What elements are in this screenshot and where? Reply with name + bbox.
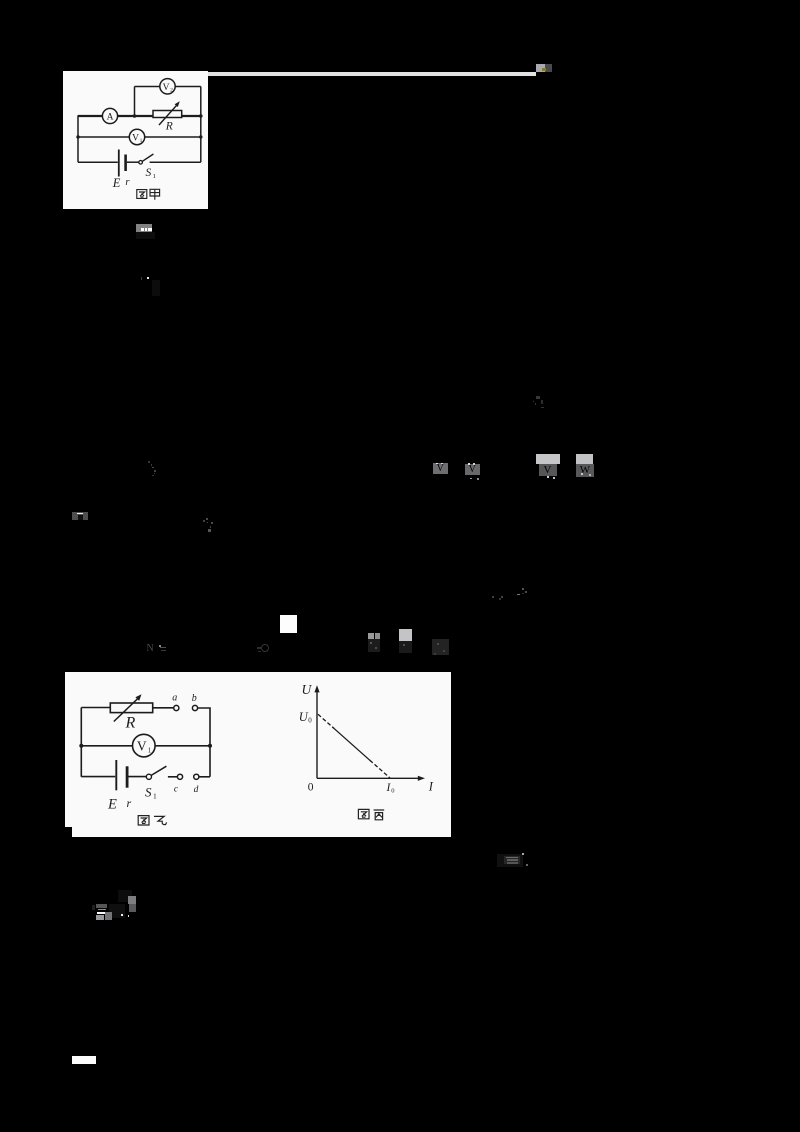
wire: left vertical xyxy=(80,708,82,777)
axis arrowheads xyxy=(314,685,425,781)
label I0 xyxy=(386,782,395,795)
text remnant m9 xyxy=(206,518,208,520)
text remnant m5 xyxy=(148,461,150,463)
svg-text:1: 1 xyxy=(153,792,157,801)
U0 dashed load line xyxy=(318,714,334,728)
ammeter A xyxy=(102,108,117,123)
wire: top branch horizontal xyxy=(135,86,201,88)
text remnant m1 xyxy=(536,64,545,72)
wire: bottom mid segment xyxy=(127,161,139,163)
svg-text:E: E xyxy=(112,176,121,190)
figure panel 乙/丙 (white box) xyxy=(65,672,451,837)
svg-text:2: 2 xyxy=(170,88,173,94)
battery E r xyxy=(119,150,126,177)
wire: top left segment xyxy=(81,707,110,709)
voltmeter V1 xyxy=(129,129,144,144)
figure panel 甲 (white box) xyxy=(63,71,208,209)
svg-text:S: S xyxy=(145,784,152,799)
node junction dots xyxy=(76,114,202,139)
svg-text:R: R xyxy=(125,715,136,732)
wire: main horizontal left segment xyxy=(78,115,102,117)
node junction dots xyxy=(79,744,212,748)
text remnant m13 xyxy=(257,647,261,649)
svg-text:V: V xyxy=(137,739,147,754)
svg-text:V: V xyxy=(163,83,170,93)
text remnant m7 xyxy=(536,454,561,464)
circuit 甲 schematic xyxy=(62,70,208,209)
svg-text:c: c xyxy=(174,784,179,794)
text remnant m12 xyxy=(147,644,157,654)
wire: left vertical xyxy=(77,115,79,162)
wire: right vertical xyxy=(200,87,202,163)
text remnant m17 (white bar) xyxy=(72,1056,96,1064)
wire: V1 branch horizontal xyxy=(78,136,201,138)
wire: main horizontal mid segment xyxy=(118,115,201,117)
svg-text:1: 1 xyxy=(153,173,156,180)
svg-text:0: 0 xyxy=(308,717,312,725)
rheostat R box xyxy=(153,101,182,125)
voltmeter V2 xyxy=(160,79,175,94)
svg-text:r: r xyxy=(125,177,130,188)
text remnant m3 xyxy=(141,277,143,280)
svg-text:A: A xyxy=(107,113,114,123)
svg-text:V: V xyxy=(132,134,139,144)
label S1 xyxy=(146,167,156,180)
wire: middle branch xyxy=(81,745,210,747)
text remnant m14 xyxy=(368,633,374,639)
black notch at panel corner xyxy=(64,827,72,838)
text remnant m8 xyxy=(72,512,88,520)
svg-text:R: R xyxy=(165,121,173,133)
svg-text:I: I xyxy=(428,780,434,794)
voltmeter V1 xyxy=(133,734,156,757)
white strip right of panel 甲 top xyxy=(208,72,536,76)
circuit 乙 and graph 丙 xyxy=(65,672,451,837)
graph 丙: U axis xyxy=(317,691,421,779)
text remnant m4 xyxy=(536,396,540,399)
text remnant m15 xyxy=(497,854,523,867)
wire: d to right corner xyxy=(199,776,210,778)
svg-text:U: U xyxy=(302,682,313,697)
terminal c xyxy=(177,774,182,779)
wire: switch to c xyxy=(168,776,177,778)
text remnant m10 xyxy=(492,596,494,598)
text remnant m2 xyxy=(136,224,152,232)
wire: top branch vertical xyxy=(134,87,136,117)
text remnant m16 xyxy=(109,904,125,918)
caption 图丙 xyxy=(358,809,384,819)
label S1 xyxy=(145,784,157,800)
svg-text:1: 1 xyxy=(140,138,143,144)
wire: bottom left segment xyxy=(81,776,115,778)
wire: bottom right segment xyxy=(150,161,201,163)
terminal b xyxy=(192,705,197,710)
wire: bottom left segment xyxy=(78,161,118,163)
rheostat R box xyxy=(110,694,152,721)
text remnant m6 xyxy=(433,463,448,474)
battery E r xyxy=(116,760,127,790)
wire: battery to switch xyxy=(129,776,147,778)
text remnant m11 (white square) xyxy=(280,615,297,633)
switch S1 xyxy=(139,154,154,164)
svg-text:0: 0 xyxy=(308,782,314,794)
caption 图甲 xyxy=(137,189,160,200)
svg-text:E: E xyxy=(107,796,117,812)
wire: b to corner and right vertical xyxy=(198,708,210,777)
svg-text:b: b xyxy=(192,693,197,704)
svg-text:1: 1 xyxy=(148,747,152,755)
svg-text:a: a xyxy=(172,693,177,704)
caption 图乙 xyxy=(138,816,166,825)
svg-text:d: d xyxy=(194,785,199,795)
switch S1 xyxy=(146,766,166,779)
svg-text:r: r xyxy=(127,796,132,810)
wire: top from R to a xyxy=(153,707,174,709)
label U0 xyxy=(299,710,312,725)
svg-text:0: 0 xyxy=(391,788,394,795)
terminal d xyxy=(194,774,199,779)
svg-text:S: S xyxy=(146,167,152,179)
terminal a xyxy=(174,705,179,710)
